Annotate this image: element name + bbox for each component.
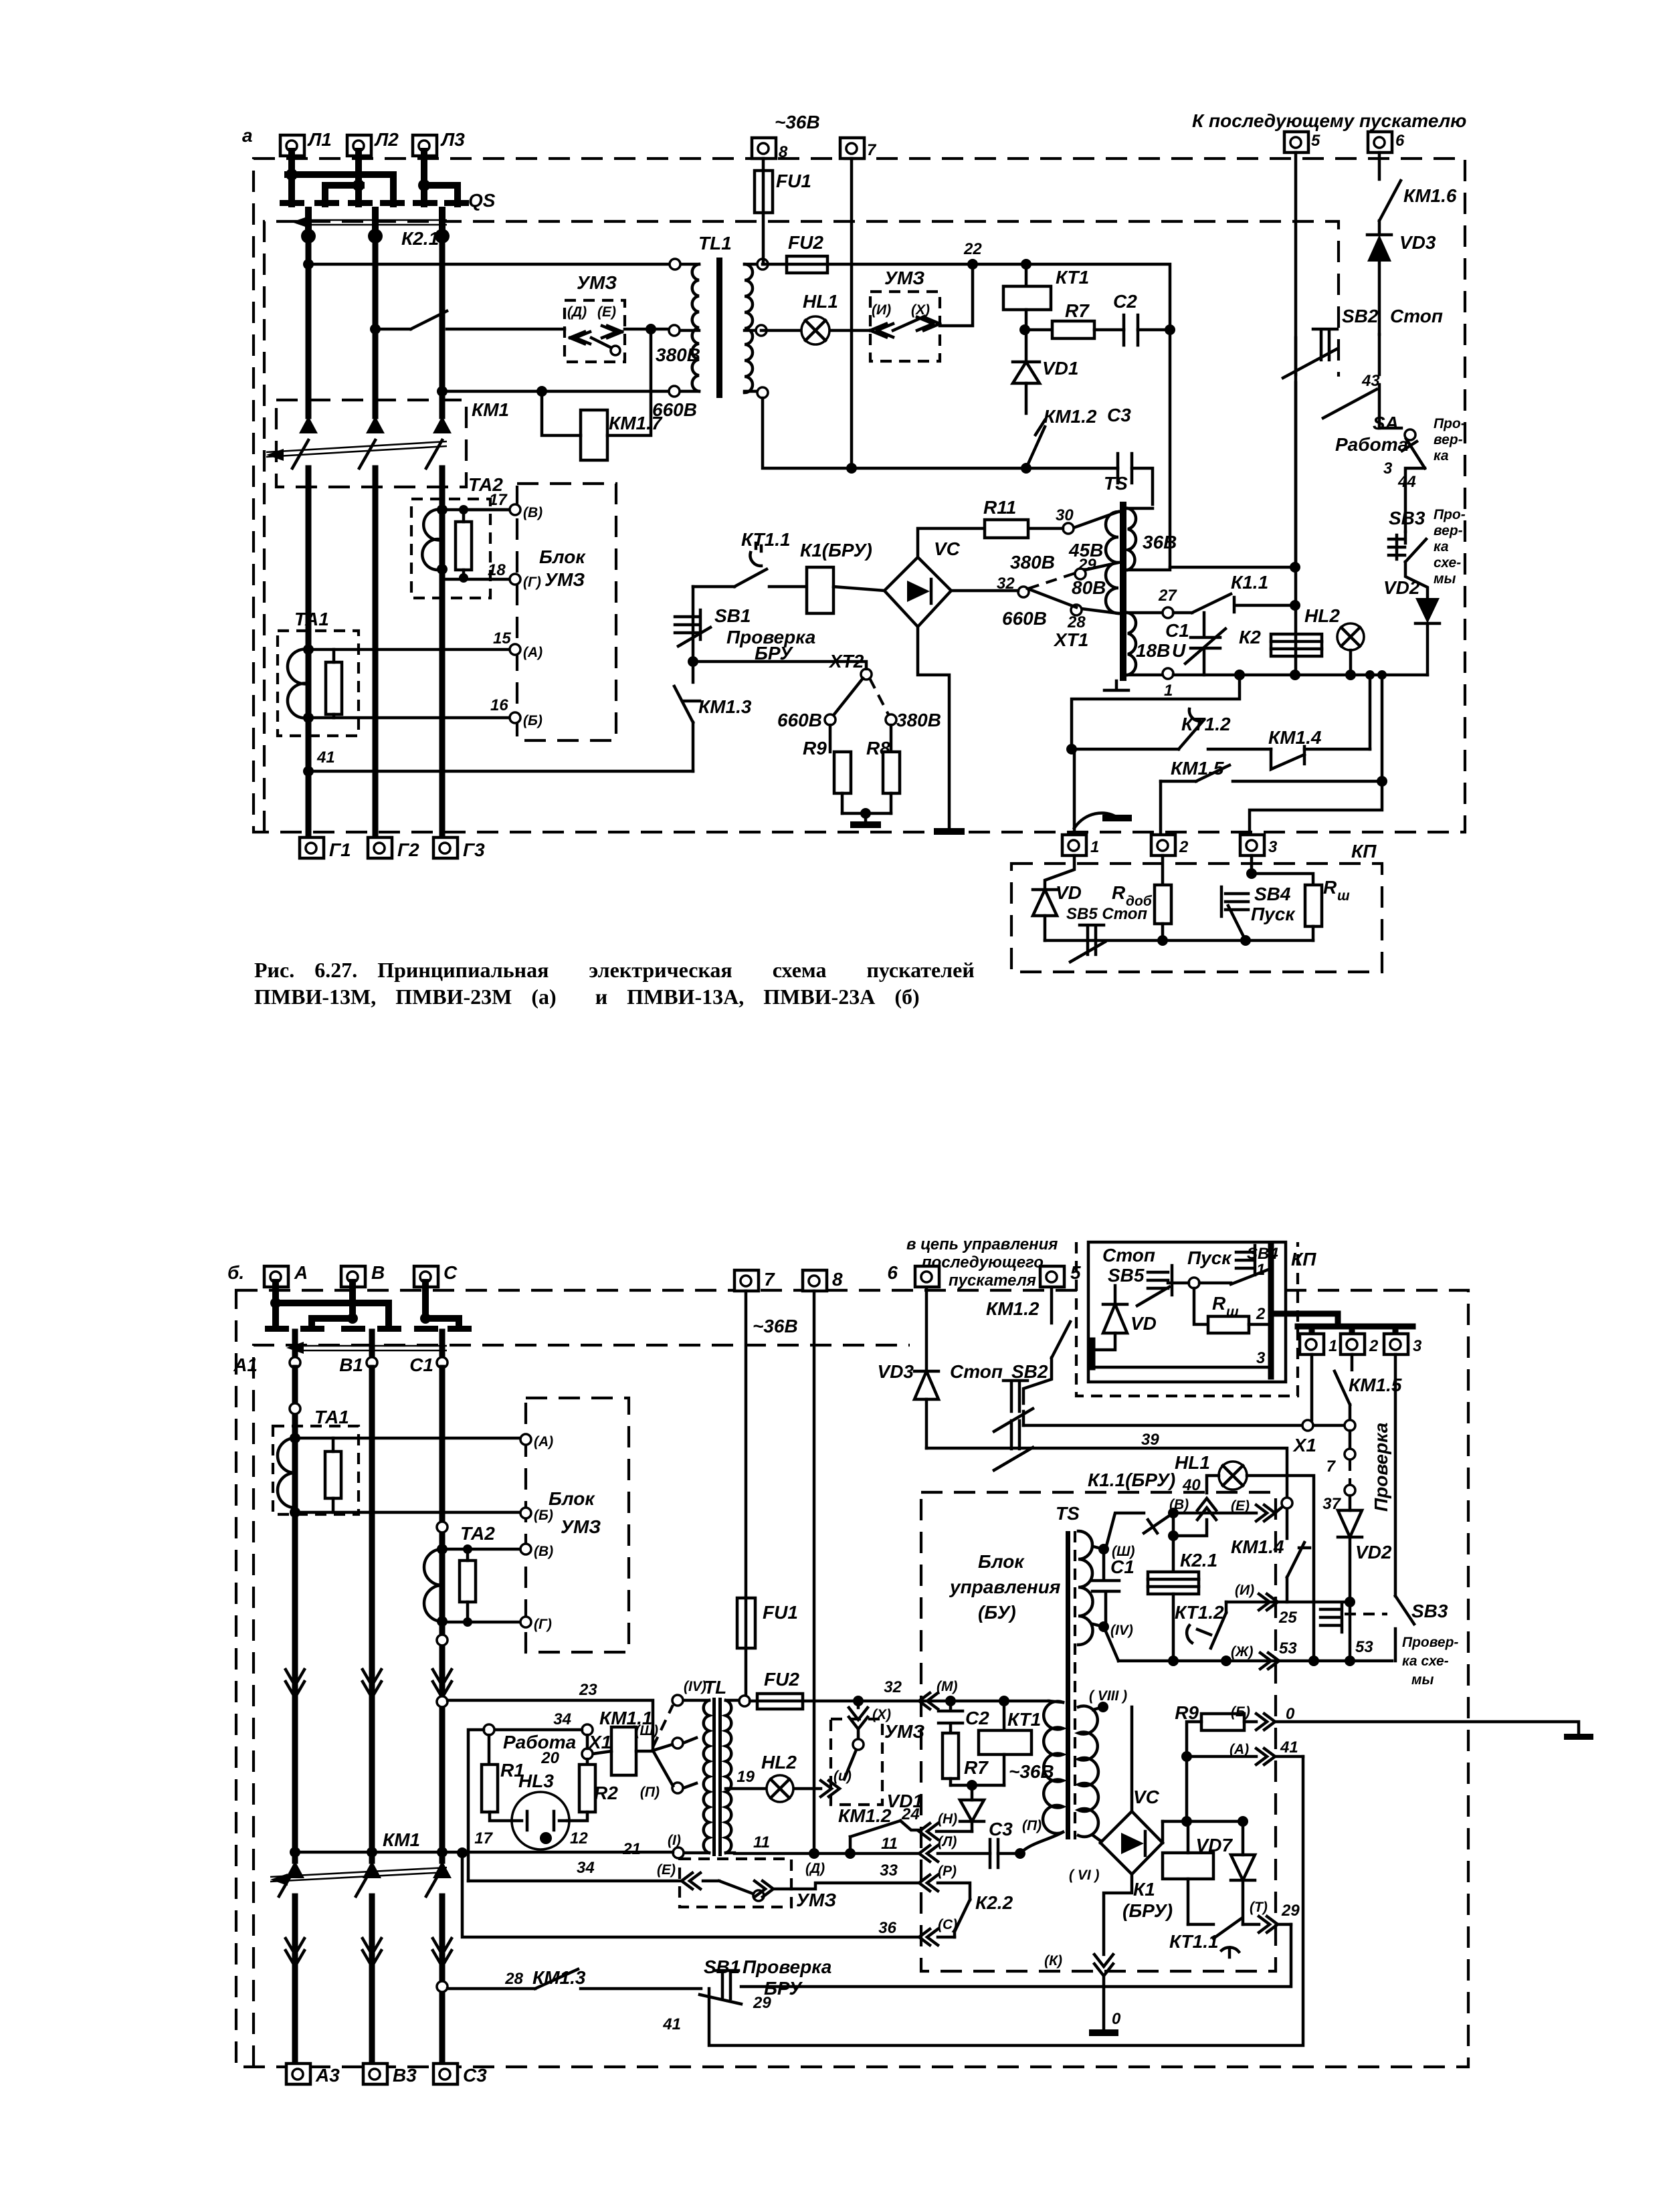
svg-text:FU2: FU2 — [788, 232, 823, 253]
transformer TS (a) — [997, 473, 1189, 700]
KP remote station dashed box (a) — [1011, 841, 1382, 972]
svg-text:1: 1 — [1164, 682, 1173, 700]
terminal A3 — [286, 2064, 340, 2086]
fuse FU2 (b) — [750, 1669, 1049, 1709]
capacitor C3 (a) — [1107, 405, 1153, 504]
wire 29 — [741, 1924, 1291, 2012]
lamp HL2 (b) — [728, 1752, 840, 1802]
terminal 1 (KP) — [1062, 835, 1099, 856]
svg-text:К2.2: К2.2 — [975, 1892, 1013, 1913]
wire 33 (D)-(R) — [468, 1859, 700, 1889]
svg-text:Блок: Блок — [549, 1488, 595, 1509]
svg-text:VD3: VD3 — [1399, 232, 1436, 253]
svg-text:(А): (А) — [523, 645, 543, 660]
UMZ plug box left (a) — [565, 272, 625, 362]
plug XT1 jumpers — [951, 572, 1079, 607]
capacitor C3 (b) — [989, 1818, 1042, 1868]
svg-text:схе-: схе- — [1434, 555, 1461, 571]
svg-text:А1: А1 — [233, 1354, 258, 1375]
relay K1 (BRU) coil — [800, 540, 884, 613]
svg-text:53: 53 — [1355, 1638, 1373, 1656]
terminal L3 — [413, 129, 465, 156]
svg-text:18: 18 — [488, 561, 506, 579]
lamp HL1 — [761, 291, 870, 344]
svg-text:VD: VD — [1130, 1313, 1157, 1334]
wire 17 to pin (V) — [464, 508, 510, 512]
svg-text:(Е): (Е) — [597, 304, 616, 320]
svg-text:U: U — [1172, 640, 1186, 661]
relay K2 — [1239, 627, 1322, 656]
svg-text:(В): (В) — [534, 1544, 553, 1559]
svg-text:7: 7 — [1326, 1457, 1337, 1476]
terminal 5 (b) — [1040, 1262, 1081, 1287]
wire VC bottom to ground 0 — [1044, 1868, 1132, 2036]
relay KT1 (b) — [979, 1701, 1054, 1785]
terminal 7 (b) — [734, 1269, 775, 1291]
svg-text:0: 0 — [1112, 2010, 1121, 2028]
svg-text:( VIII ): ( VIII ) — [1089, 1688, 1127, 1704]
svg-text:УМЗ: УМЗ — [577, 272, 617, 293]
svg-text:Про-: Про- — [1434, 507, 1466, 522]
node R7 KT1 VD1 — [951, 1780, 1004, 1791]
wire to pin (A) b — [295, 1437, 520, 1440]
contact KM1.4 (b) — [1231, 1508, 1310, 1602]
terminal A — [264, 1262, 308, 1287]
wire VC bottom to chassis — [918, 627, 965, 835]
wire 23 — [437, 1681, 653, 1750]
wire to pin (B) b — [295, 1511, 520, 1514]
svg-text:(Б): (Б) — [1231, 1704, 1250, 1720]
svg-text:(Р): (Р) — [938, 1864, 957, 1879]
wire 18 to pin (G) — [464, 578, 510, 581]
wire 36V-bottom to t5 line — [1170, 566, 1295, 569]
terminal 8 (b) — [803, 1269, 843, 1291]
svg-text:24: 24 — [901, 1805, 920, 1823]
diode VD1 (b) — [887, 1785, 984, 1831]
svg-text:Пуск: Пуск — [1251, 904, 1296, 924]
bottom node wire 11-line — [846, 463, 857, 474]
transformer TL (b) — [622, 1677, 770, 1858]
contactor KM1 main contacts — [266, 399, 509, 487]
diode VD3 (b) — [878, 1288, 1048, 1448]
wire (B) 0 to ground — [1231, 1704, 1593, 1740]
phase line B (b) — [369, 1368, 375, 2064]
contactor KM1 main contacts (b) — [270, 1829, 452, 1896]
svg-text:1: 1 — [1328, 1337, 1337, 1355]
wire K2.1 to 380V tap — [625, 328, 675, 331]
resistor R9 (b) — [1175, 1702, 1256, 1821]
svg-text:доб: доб — [1126, 894, 1153, 909]
svg-text:(А): (А) — [1229, 1742, 1249, 1757]
svg-text:53: 53 — [1279, 1639, 1297, 1657]
KP right bus bar (b) — [1268, 1245, 1274, 1377]
svg-text:Г3: Г3 — [463, 839, 485, 860]
phase line A (b) — [292, 1368, 298, 2064]
phase down-arrows lower (b) — [286, 1938, 452, 1967]
KP internal node circle — [1168, 1278, 1231, 1288]
contact KM1.4 — [1268, 727, 1370, 769]
svg-text:КП: КП — [1291, 1249, 1316, 1270]
svg-text:34: 34 — [553, 1710, 571, 1728]
svg-text:3: 3 — [1383, 460, 1393, 478]
wire terminal3 down (b) — [1394, 1354, 1397, 1596]
svg-text:КМ1: КМ1 — [472, 399, 509, 420]
svg-text:HL3: HL3 — [518, 1771, 554, 1791]
KP left bar (b) — [1090, 1340, 1096, 1367]
wire 22 right vertical — [973, 264, 1170, 567]
svg-text:32: 32 — [884, 1678, 902, 1696]
svg-text:Г2: Г2 — [397, 839, 419, 860]
connector (Zh) chevron — [1231, 1644, 1279, 1669]
resistor R9 (a) — [803, 725, 851, 813]
svg-text:(Е): (Е) — [1231, 1498, 1250, 1514]
wire terminal7 down to FU1 — [745, 1291, 748, 1598]
svg-text:(I): (I) — [668, 1833, 681, 1848]
wire KT1.2 node — [1234, 670, 1245, 680]
svg-text:КТ1: КТ1 — [1056, 267, 1089, 288]
wire (T) 29 chevron — [1250, 1900, 1300, 1932]
KP output bus to terminals 1 2 3 — [1271, 1314, 1413, 1334]
button SB2 Stop — [1283, 306, 1443, 567]
terminal B3 — [363, 2064, 417, 2086]
svg-text:HL2: HL2 — [1304, 605, 1340, 626]
svg-text:Работа: Работа — [503, 1732, 576, 1752]
node K2.1 top — [1168, 1513, 1179, 1572]
button SB1 with test circuit — [675, 605, 815, 664]
wire IV to 53 — [1104, 1627, 1118, 1661]
button SB4 Pusk (KP b) — [1187, 1245, 1278, 1284]
wire 15 to pin (A) — [308, 648, 510, 651]
diode VD (KP a) — [1033, 856, 1082, 940]
resistor R11 — [918, 497, 1063, 557]
svg-text:80В: 80В — [1072, 577, 1106, 598]
svg-text:17: 17 — [474, 1829, 493, 1847]
terminal C3 — [433, 2064, 487, 2086]
svg-text:SB3: SB3 — [1389, 508, 1425, 528]
svg-text:41: 41 — [1280, 1738, 1298, 1756]
lamp HL3 — [474, 1771, 588, 1849]
KP bottom wire (b) — [1092, 1349, 1271, 1367]
svg-text:В1: В1 — [339, 1354, 363, 1375]
svg-text:Рис. 6.27. Принципиальная эле: Рис. 6.27. Принципиальная электрическая … — [254, 958, 975, 982]
svg-text:УМЗ: УМЗ — [884, 268, 924, 288]
svg-text:X1: X1 — [1292, 1435, 1316, 1455]
svg-text:УМЗ: УМЗ — [884, 1721, 924, 1742]
input bus-bar assembly — [280, 151, 469, 206]
svg-text:(М): (М) — [937, 1679, 957, 1694]
svg-text:41: 41 — [662, 2015, 681, 2033]
svg-text:380В: 380В — [656, 344, 700, 365]
capacitor C2 (b) — [939, 1701, 989, 1733]
svg-text:В: В — [371, 1262, 385, 1283]
svg-text:В3: В3 — [393, 2065, 417, 2086]
svg-text:18В: 18В — [1136, 640, 1170, 661]
svg-text:К1: К1 — [1133, 1879, 1155, 1900]
svg-text:25: 25 — [1278, 1609, 1297, 1627]
svg-text:КМ1.1: КМ1.1 — [599, 1708, 652, 1728]
svg-text:VD1: VD1 — [1042, 358, 1078, 379]
svg-text:С1: С1 — [409, 1354, 433, 1375]
UMZ plug box lower (b) — [680, 1859, 836, 1910]
svg-text:C2: C2 — [965, 1708, 989, 1728]
svg-text:(БУ): (БУ) — [978, 1602, 1016, 1623]
svg-text:2: 2 — [1256, 1305, 1266, 1323]
svg-text:QS: QS — [468, 190, 496, 211]
contact KM1.6 — [1379, 153, 1457, 235]
svg-text:XT1: XT1 — [1053, 629, 1088, 650]
svg-text:C3: C3 — [989, 1819, 1013, 1839]
contact K2.1 — [375, 228, 565, 329]
connector (I) chevron — [1235, 1583, 1278, 1610]
phase wire G3 — [439, 235, 446, 837]
svg-text:29: 29 — [1078, 556, 1096, 574]
svg-text:Л1: Л1 — [307, 129, 332, 150]
diode VD2 — [1383, 577, 1440, 675]
svg-text:в цепь управления: в цепь управления — [906, 1235, 1058, 1253]
contact KT1.2 — [1072, 709, 1271, 749]
svg-text:КП: КП — [1351, 841, 1377, 862]
junction node 22-line taps — [303, 259, 314, 270]
wire phase3 to 660V tap — [442, 390, 673, 393]
terminal 2 (KP) — [1151, 835, 1189, 856]
contact KM1.2 (b top) — [986, 1288, 1070, 1403]
terminal G1 — [300, 837, 351, 860]
svg-text:ка: ка — [1434, 448, 1449, 464]
svg-text:КТ1.2: КТ1.2 — [1175, 1602, 1224, 1623]
fuse FU1 (b) — [737, 1598, 798, 1698]
svg-text:SB5: SB5 — [1108, 1265, 1145, 1286]
svg-text:пускателя: пускателя — [949, 1272, 1036, 1290]
svg-text:SB3: SB3 — [1411, 1601, 1448, 1621]
tap selector X1-KM1.1 (b) — [653, 1705, 673, 1786]
svg-text:HL2: HL2 — [761, 1752, 797, 1773]
svg-text:39: 39 — [1141, 1431, 1159, 1449]
wire 36 (S) — [457, 1847, 957, 1945]
current transformer TA2 — [411, 474, 509, 598]
svg-text:660В: 660В — [652, 399, 697, 420]
svg-text:КМ1.2: КМ1.2 — [838, 1805, 892, 1826]
connector (X) chevron down — [849, 1701, 891, 1729]
svg-text:КМ1.4: КМ1.4 — [1268, 727, 1322, 748]
svg-text:21: 21 — [622, 1840, 641, 1858]
svg-text:36: 36 — [878, 1919, 896, 1937]
wire 25 — [1226, 1597, 1355, 1627]
resistor Rsh (KP b) — [1194, 1288, 1271, 1333]
svg-text:7: 7 — [764, 1269, 775, 1290]
svg-text:(Л): (Л) — [938, 1834, 957, 1849]
wire (A) 41 chevron — [1181, 1738, 1303, 1765]
wire 41 — [303, 766, 314, 777]
node 22 — [967, 259, 978, 270]
svg-text:Г1: Г1 — [329, 839, 351, 860]
svg-text:(Б): (Б) — [523, 713, 543, 728]
terminal L2 — [347, 129, 399, 156]
relay KT1 — [1003, 259, 1089, 330]
wire 53 — [1118, 1638, 1392, 1666]
wire 21 (I) — [290, 1847, 673, 1857]
svg-text:3: 3 — [1413, 1337, 1422, 1355]
contact KM1.2 (b mid) — [838, 1805, 900, 1853]
plug X1 Rabota (b) — [468, 1710, 611, 1881]
resistor R7 — [1019, 300, 1124, 338]
terminal 8 — [752, 138, 788, 161]
terminal 5 — [1284, 132, 1320, 153]
plug XT2 — [688, 651, 941, 730]
svg-text:VD: VD — [1056, 882, 1082, 903]
svg-text:А: А — [294, 1262, 308, 1283]
svg-text:1: 1 — [1090, 838, 1099, 856]
svg-text:TS: TS — [1056, 1503, 1080, 1524]
svg-text:19: 19 — [736, 1768, 755, 1786]
svg-text:7: 7 — [867, 141, 877, 159]
svg-text:TL: TL — [704, 1677, 726, 1698]
svg-text:HL1: HL1 — [1175, 1452, 1210, 1473]
button SB5 Stop (KP b) — [1102, 1245, 1172, 1306]
svg-text:380В: 380В — [896, 710, 941, 730]
svg-text:R9: R9 — [1175, 1702, 1199, 1723]
svg-text:(Х): (Х) — [911, 302, 930, 318]
svg-text:КТ1.2: КТ1.2 — [1181, 714, 1231, 734]
svg-text:20: 20 — [540, 1749, 559, 1767]
svg-text:К2: К2 — [1239, 627, 1261, 647]
wire to pin (V) b — [442, 1548, 520, 1551]
terminal 3 (KP) — [1240, 835, 1278, 856]
svg-text:(Г): (Г) — [534, 1617, 552, 1632]
svg-text:SB4: SB4 — [1254, 884, 1291, 904]
block UMZ dashed box (b) — [520, 1398, 629, 1652]
wire 39 upper (to KM1.5 X1) — [1023, 1424, 1344, 1427]
svg-text:КМ1: КМ1 — [383, 1829, 420, 1850]
terminal 3 (b) — [1384, 1334, 1422, 1355]
QS disconnect moving contacts — [301, 190, 496, 243]
svg-text:вер-: вер- — [1434, 432, 1463, 447]
svg-text:TL1: TL1 — [698, 233, 732, 254]
svg-text:VC: VC — [934, 538, 961, 559]
rectifier VC — [884, 538, 961, 627]
svg-text:SB1: SB1 — [714, 605, 751, 626]
svg-text:Л3: Л3 — [440, 129, 465, 150]
relay K1 BRU coil (b) — [1122, 1821, 1213, 1924]
svg-text:5: 5 — [1311, 132, 1320, 150]
svg-text:2: 2 — [1179, 838, 1189, 856]
svg-text:КМ1.6: КМ1.6 — [1403, 185, 1457, 206]
svg-text:Работа: Работа — [1335, 434, 1408, 455]
svg-text:~36В: ~36В — [1009, 1761, 1054, 1782]
svg-text:R: R — [1212, 1293, 1226, 1314]
svg-text:б.: б. — [227, 1262, 244, 1283]
svg-text:36В: 36В — [1143, 532, 1177, 552]
svg-text:HL1: HL1 — [803, 291, 838, 312]
svg-text:К1(БРУ): К1(БРУ) — [800, 540, 872, 561]
capacitor C1 (b) — [1092, 1549, 1135, 1627]
contact K2.2 — [955, 1892, 1013, 1937]
svg-text:33: 33 — [880, 1862, 898, 1880]
phase down-arrows upper (b) — [286, 1670, 452, 1698]
svg-text:Стоп: Стоп — [950, 1361, 1003, 1382]
svg-text:2: 2 — [1369, 1337, 1379, 1355]
svg-text:управления: управления — [949, 1577, 1060, 1597]
node wire above VC — [1163, 1816, 1243, 1843]
wire terminal8 down — [813, 1291, 816, 1853]
svg-text:(А): (А) — [534, 1434, 553, 1449]
contact KT1.2 (b) — [1175, 1602, 1231, 1666]
terminal B — [341, 1262, 385, 1287]
svg-text:FU1: FU1 — [776, 171, 811, 191]
svg-text:(IV): (IV) — [684, 1679, 706, 1694]
terminal 6 (b) — [887, 1262, 939, 1287]
svg-text:R9: R9 — [803, 738, 827, 759]
svg-text:К2.1: К2.1 — [401, 228, 439, 249]
svg-text:Проверка: Проверка — [1371, 1423, 1391, 1512]
svg-text:мы: мы — [1411, 1672, 1434, 1688]
current transformer TA1 — [278, 609, 359, 736]
resistor R7 (b) — [943, 1733, 989, 1785]
svg-text:Пуск: Пуск — [1187, 1247, 1232, 1268]
svg-text:Проверка: Проверка — [743, 1956, 831, 1977]
svg-text:ТА2: ТА2 — [460, 1523, 495, 1544]
svg-text:вер-: вер- — [1434, 523, 1463, 538]
vertical drops from node wire — [1365, 670, 1375, 680]
svg-text:(БРУ): (БРУ) — [1122, 1900, 1173, 1921]
svg-text:R: R — [1112, 882, 1126, 903]
svg-text:КТ1: КТ1 — [1007, 1709, 1041, 1730]
wire 39 lower (from VD3) — [926, 1431, 1287, 1498]
diode VD2 (b) — [1338, 1510, 1392, 1661]
svg-text:(IV): (IV) — [1110, 1623, 1133, 1638]
svg-text:a: a — [242, 125, 253, 146]
svg-text:КТ1.1: КТ1.1 — [741, 529, 791, 550]
svg-text:Стоп: Стоп — [1102, 1245, 1155, 1266]
svg-text:6: 6 — [887, 1262, 898, 1283]
svg-text:43: 43 — [1361, 372, 1380, 390]
plug X1 (b) — [1292, 1431, 1355, 1513]
svg-text:380В: 380В — [1010, 552, 1055, 573]
svg-text:(и): (и) — [833, 1769, 852, 1784]
svg-text:C2: C2 — [1113, 291, 1137, 312]
svg-text:12: 12 — [570, 1829, 588, 1847]
svg-text:(В): (В) — [523, 505, 543, 520]
svg-text:17: 17 — [489, 491, 508, 509]
wire 32 — [853, 1678, 1009, 1706]
svg-text:(Г): (Г) — [523, 575, 541, 590]
wire 33 to (R) — [791, 1861, 970, 1900]
diode VD3 — [1367, 232, 1436, 334]
svg-text:ТА1: ТА1 — [314, 1407, 349, 1427]
svg-text:(Н): (Н) — [938, 1811, 957, 1827]
svg-text:(И): (И) — [872, 302, 891, 318]
svg-text:R: R — [1323, 877, 1337, 898]
transformer TS (b) — [1020, 1503, 1135, 1853]
svg-text:34: 34 — [577, 1859, 595, 1877]
wire terminal5 down — [1294, 153, 1298, 675]
phase wire G2 — [373, 235, 379, 837]
KP station box (b) — [1076, 1242, 1316, 1396]
svg-text:8: 8 — [832, 1269, 843, 1290]
svg-text:С3: С3 — [463, 2065, 487, 2086]
diode VD (KP b) — [1092, 1286, 1157, 1350]
svg-text:( VI ): ( VI ) — [1069, 1868, 1100, 1883]
svg-text:11: 11 — [753, 1833, 770, 1851]
contact K1.1 BRU (b) — [1088, 1470, 1256, 1548]
button SB2 (b) — [994, 1381, 1033, 1470]
button SB1 (b) — [700, 1956, 831, 2004]
svg-text:БРУ: БРУ — [755, 643, 793, 664]
svg-text:ка схе-: ка схе- — [1402, 1653, 1449, 1669]
relay K2.1 (b) — [1148, 1550, 1217, 1661]
coil KM1.7 (contactor coil) — [542, 329, 663, 460]
svg-text:(И): (И) — [1235, 1583, 1254, 1598]
resistor R8 (a) — [866, 725, 900, 813]
